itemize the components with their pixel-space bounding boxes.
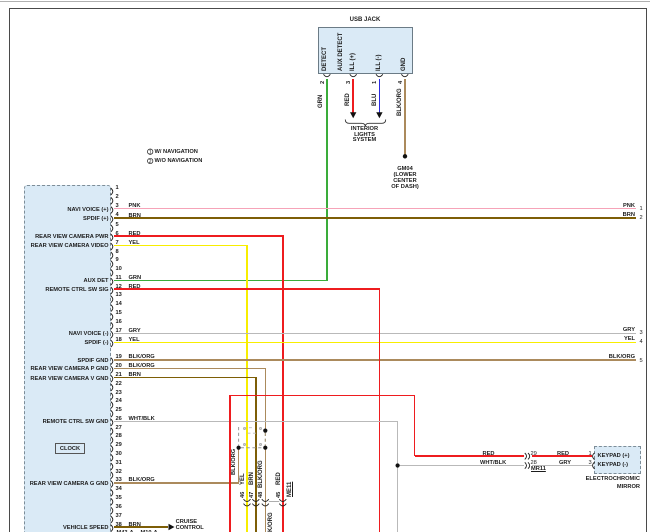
dashed variant link horizontal y=433.2 — [248, 432, 258, 434]
dashed variant link horizontal y=427.7 — [244, 427, 255, 429]
pin 37 of radio connector — [111, 516, 113, 523]
connector MR11 pin 28 — [525, 462, 530, 468]
pin 31 of radio connector — [111, 463, 113, 470]
ME11 pin 46 break — [244, 499, 251, 506]
node 5 right edge — [640, 358, 643, 365]
wire BLK/ORG vertical x=238.6 up to junction — [238, 448, 240, 483]
variant mark 2 — [259, 443, 262, 446]
wire YEL vertical x=247 down to ME11 pin46 — [246, 245, 248, 532]
note 1: W/ NAVIGATION — [155, 149, 198, 156]
label REAR VIEW CAMERA PWR — [35, 234, 108, 241]
connector M43-A (cropped) — [117, 530, 134, 532]
pin 3 arc KEYPAD (-) — [593, 462, 595, 469]
pin 1 of radio connector — [111, 188, 113, 195]
connector MR11 pin 29 — [525, 453, 530, 459]
wire BLK/ORG (USB GND pin4) — [404, 79, 406, 156]
wire PNK NAVI VOICE (+) pin3 — [114, 208, 636, 209]
label BLK/ORG pin 33 — [129, 477, 155, 484]
label ELECTROCHROMIC MIRROR — [586, 476, 640, 483]
arrow to cruise control — [169, 524, 175, 530]
arrow into interior lights (BLU) — [376, 112, 382, 118]
wire BLK/ORG SPDIF GND pin19 — [114, 359, 636, 361]
wire WHT/BLK vertical x=397.6 — [397, 421, 398, 532]
dashed variant link vertical x=265.3 — [264, 433, 266, 446]
wire BRN vertical x=256 down to ME11 pin47 — [255, 378, 257, 532]
wire GRY MR11 to KEYPAD (-) — [532, 465, 592, 466]
ME11 pin 48 break — [262, 499, 269, 506]
label BRN pin 4 — [129, 213, 141, 220]
dashed variant link vertical x=238.6 — [238, 427, 240, 446]
wire BRN REAR VIEW CAMERA V GND pin21 — [114, 377, 257, 379]
label REMOTE CTRL SW SIG — [45, 287, 108, 294]
pin 6 of radio connector — [111, 234, 113, 241]
label RED rotated — [276, 472, 282, 485]
wire BLK/ORG vertical x=265 to junction — [265, 368, 267, 430]
wire BRN VEHICLE SPEED pin38 — [114, 526, 168, 528]
wire RED REAR VIEW CAMERA PWR pin6 — [114, 235, 284, 237]
wire RED vertical x=379.5 down off page — [379, 289, 381, 532]
pin 38 of radio connector — [111, 525, 113, 532]
pin 2 of radio connector — [111, 197, 113, 204]
pin 9 of radio connector — [111, 261, 113, 268]
label BLK/ORG rotated below ME11 — [268, 512, 274, 532]
brace interior lights system — [345, 120, 385, 127]
label SPDIF (+) — [83, 216, 108, 223]
wire BLU ILL(-) from USB pin1 — [379, 79, 381, 113]
arrow into interior lights (RED) — [350, 112, 356, 118]
label KEYPAD (-) — [598, 462, 629, 469]
pin 23 of radio connector — [111, 393, 113, 400]
label REAR VIEW CAMERA VIDEO — [31, 243, 109, 250]
label VEHICLE SPEED — [63, 525, 109, 532]
label NAVI VOICE (-) — [69, 331, 109, 338]
pin 17 of radio connector — [111, 331, 113, 338]
label SPDIF GND — [78, 358, 109, 365]
label BLK/ORG rotated x=232 — [232, 449, 238, 475]
variant mark 1 — [243, 427, 246, 430]
label BLK/ORG pin 20 — [129, 363, 155, 370]
wire RED REMOTE CTRL SW SIG pin12 — [114, 288, 381, 290]
node 1 right edge — [640, 206, 643, 213]
wire GRN (USB DETECT pin2 vertical) — [326, 79, 328, 281]
pin 14 of radio connector — [111, 305, 113, 312]
pin 1 KEYPAD (+) — [589, 451, 592, 458]
label REAR VIEW CAMERA G GND — [30, 481, 109, 488]
label CRUISE CONTROL — [176, 519, 198, 526]
connector U1 USB JACK — [318, 27, 414, 74]
pin 3 of USB jack — [350, 74, 357, 77]
label WHT/BLK pin 26 — [129, 416, 155, 423]
label RED left of MR11 — [483, 451, 495, 458]
pin 32 of radio connector — [111, 472, 113, 479]
junction dot at (265.3,430.6) — [263, 429, 267, 433]
wire RED MR11 to KEYPAD (+) — [532, 455, 592, 457]
label ground GM04 — [305, 166, 505, 173]
pin 22 of radio connector — [111, 384, 113, 391]
label BRN rotated — [249, 472, 255, 485]
pin 28 of radio connector — [111, 437, 113, 444]
pin 1 of USB jack — [376, 74, 383, 77]
pin 30 of radio connector — [111, 454, 113, 461]
wire BLK/ORG REAR VIEW CAMERA P GND pin20 — [114, 368, 267, 370]
label GRN — [318, 94, 324, 107]
pin 7 of radio connector — [111, 243, 113, 250]
pin 8 of radio connector — [111, 252, 113, 259]
label BRN pin 38 — [129, 522, 141, 529]
label PNK pin 3 — [129, 203, 141, 210]
pin 4 of USB jack — [401, 74, 408, 77]
label RED pin 12 — [129, 284, 141, 291]
pin 21 of radio connector — [111, 375, 113, 382]
ME11 connector bridge line — [269, 501, 279, 503]
wire RED ILL(+) from USB pin3 — [352, 79, 354, 113]
pin 15 of radio connector — [111, 314, 113, 321]
label BLK/ORG rotated — [258, 460, 264, 488]
pin 16 of radio connector — [111, 322, 113, 329]
label NAVI VOICE (+) — [67, 207, 108, 214]
label GRY pin 17 — [129, 328, 141, 335]
pin 1 arc KEYPAD (+) — [593, 453, 595, 460]
label BLK/ORG — [397, 88, 403, 116]
pin 29 of radio connector — [111, 446, 113, 453]
connector ELECTROCHROMIC MIRROR — [594, 446, 641, 474]
pin 13 of radio connector — [111, 296, 113, 303]
label AUX DET — [84, 278, 109, 285]
connector M10-A (cropped) — [141, 530, 158, 532]
wire RED horizontal y=395.4 — [230, 395, 415, 397]
wire RED vertical x=283 down to ME11 pin45 — [282, 236, 284, 532]
label YEL pin 18 — [129, 337, 140, 344]
pin 18 of radio connector — [111, 340, 113, 347]
junction WHT/BLK at (397.6,465.5) — [396, 463, 400, 467]
node 2 right edge — [640, 215, 643, 222]
pin 33 of radio connector — [111, 481, 113, 488]
pin 3 of radio connector — [111, 207, 113, 214]
label BRN pin 21 — [129, 372, 141, 379]
pin 2 of USB jack — [324, 74, 331, 77]
label YEL rotated — [240, 473, 246, 485]
pin 35 of radio connector — [111, 498, 113, 505]
label MR11 — [531, 466, 546, 472]
pin 20 of radio connector — [111, 366, 113, 373]
wire YEL SPDIF (-) pin18 — [114, 342, 636, 344]
clock box — [55, 443, 85, 454]
pin 3 KEYPAD (-) — [589, 460, 592, 467]
connector ME11 — [241, 491, 247, 497]
wire BLK/ORG vertical x=265.3 down to ME11 pin48 — [265, 448, 267, 532]
node 4 right edge — [640, 339, 643, 346]
wire YEL REAR VIEW CAMERA VIDEO pin7 — [114, 245, 248, 247]
ME11 pin 45 break — [279, 499, 286, 506]
pin 10 of radio connector — [111, 270, 113, 277]
label KEYPAD (+) — [598, 453, 630, 460]
pin 11 of radio connector — [111, 278, 113, 285]
pin 5 of radio connector — [111, 225, 113, 232]
wire WHT/BLK to MR11 pin28 — [398, 465, 525, 466]
pin 12 of radio connector — [111, 287, 113, 294]
note 2: W/O NAVIGATION — [155, 158, 203, 165]
wire RED vertical x=414.8 — [414, 395, 416, 456]
junction dot at (238.6,447.7) — [237, 446, 241, 450]
dashed variant link horizontal y=447.7 — [241, 447, 263, 449]
pin 34 of radio connector — [111, 490, 113, 497]
label REMOTE CTRL SW GND — [43, 419, 109, 426]
variant mark 1 — [259, 427, 262, 430]
pin 36 of radio connector — [111, 507, 113, 514]
wire BRN SPDIF (+) pin4 — [114, 217, 636, 219]
label REAR VIEW CAMERA V GND — [30, 376, 108, 383]
pin 19 of radio connector — [111, 358, 113, 365]
ground GM04 splice dot — [403, 154, 407, 158]
pin 27 of radio connector — [111, 428, 113, 435]
wire GRN (AUX DET to radio pin 11) — [114, 280, 328, 282]
label BLK/ORG pin 19 — [129, 354, 155, 361]
junction dot at (265.3,447.7) — [263, 446, 267, 450]
pin 26 of radio connector — [111, 419, 113, 426]
wire WHT/BLK REMOTE CTRL SW GND pin26 — [114, 421, 399, 422]
label GRN pin 11 — [129, 275, 142, 282]
label WHT/BLK left of MR11 — [480, 460, 506, 467]
wire BLK/ORG REAR VIEW CAMERA G GND pin33 — [114, 482, 240, 484]
label RED — [345, 93, 351, 106]
pin 24 of radio connector — [111, 402, 113, 409]
label BLU — [372, 93, 378, 105]
connector radio unit block — [24, 185, 111, 532]
ME11 pin 47 break — [252, 499, 259, 506]
label REAR VIEW CAMERA P GND — [30, 366, 108, 373]
pin 4 of radio connector — [111, 216, 113, 223]
node 3 right edge — [640, 330, 643, 337]
pin 25 of radio connector — [111, 410, 113, 417]
wire RED to MR11 pin29 — [415, 455, 525, 457]
label YEL pin 7 — [129, 240, 140, 247]
wire GRY NAVI VOICE (-) pin17 — [114, 333, 636, 334]
label RED pin 6 — [129, 231, 141, 238]
label SPDIF (-) — [84, 340, 108, 347]
label ME11 — [287, 482, 293, 497]
wire RED vertical x=230 from bottom — [229, 395, 231, 532]
variant mark 2 — [243, 443, 246, 446]
